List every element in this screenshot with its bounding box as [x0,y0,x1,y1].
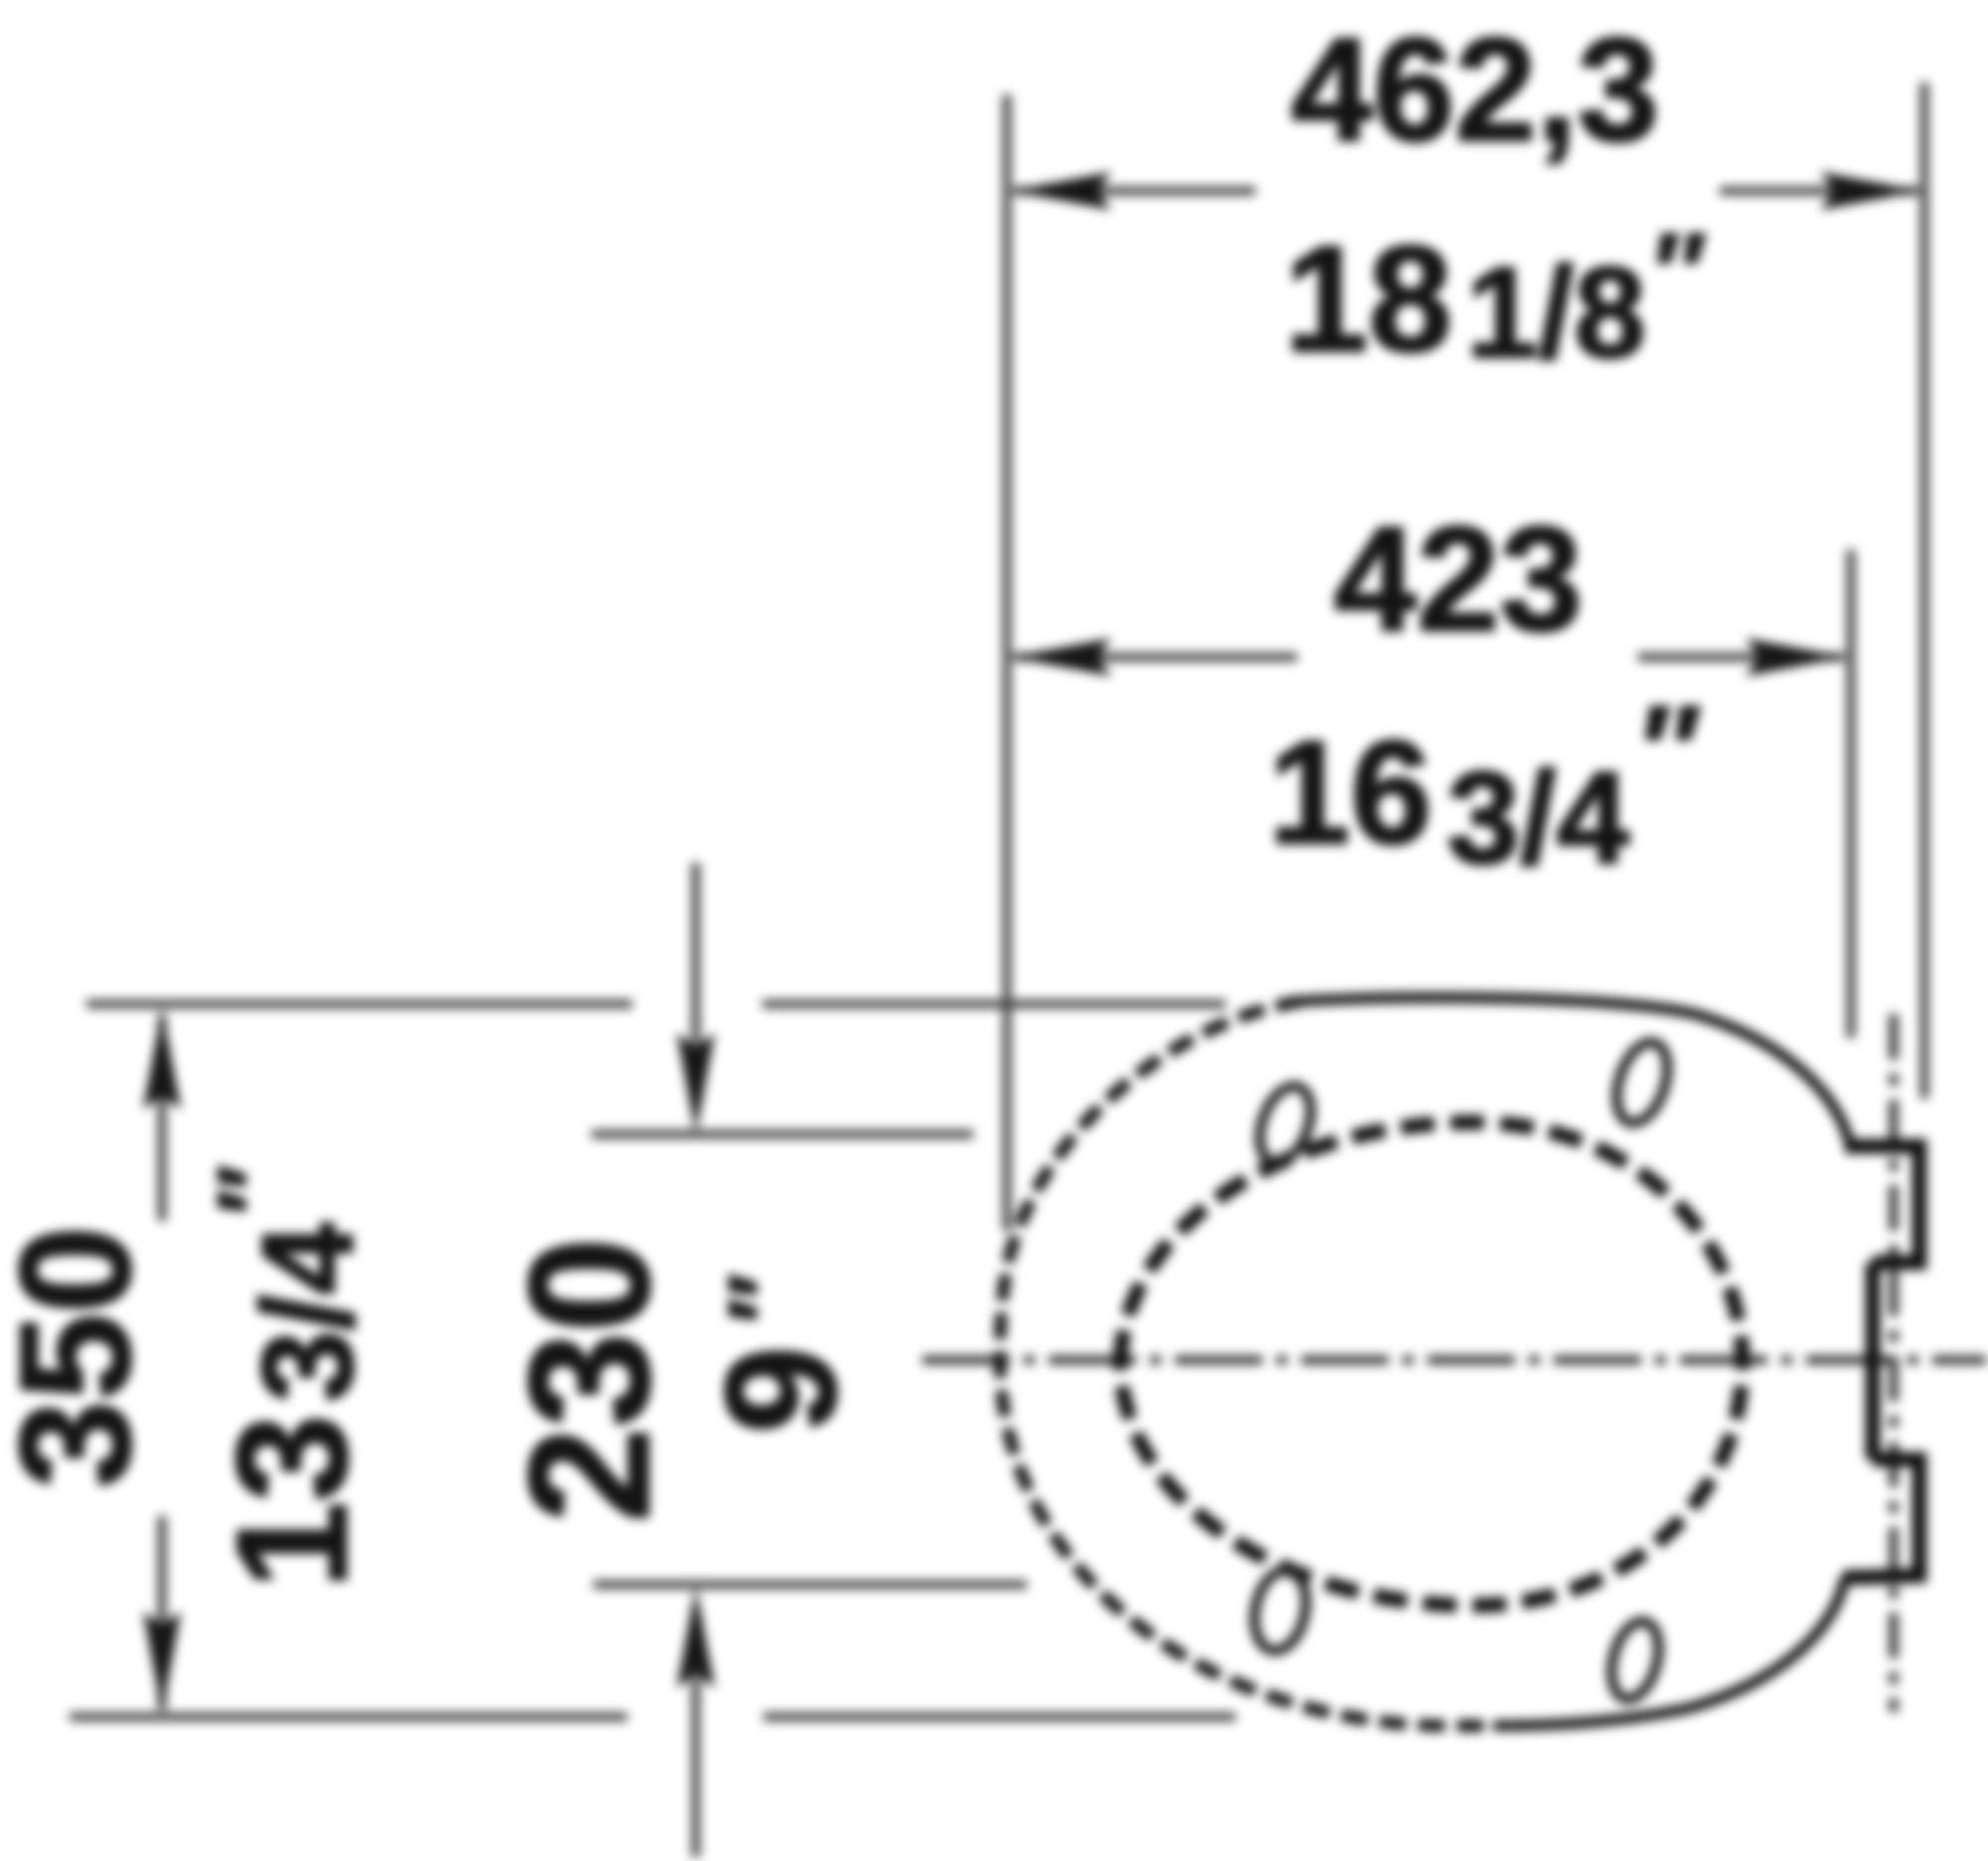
230 bottom extension line [593,1581,1027,1590]
350 bottom extension line (left part) [70,1713,627,1722]
hinge plate middle vertical [1866,1263,1881,1459]
dimension line 423 right segment [1638,653,1844,662]
bumper bottom-right [1603,1616,1666,1705]
extension line right for 462.3 (hinge plate outer edge) [1920,83,1929,1099]
inner ring (seat opening, dashed) [1120,1122,1742,1606]
230 lower arrowhead [677,1587,715,1688]
bumper top-left [1250,1080,1321,1170]
dimension line 462,3 right segment [1720,187,1918,196]
seat outer contour solid part (lid bottom corner) [1493,1578,1845,1726]
svg-text:230: 230 [494,1238,685,1523]
seat outer contour dashed part (front oval) [1000,1001,1493,1726]
350 arrowhead down [143,1611,181,1713]
230 upper arrowhead [677,1033,715,1134]
bumper bottom-left [1247,1566,1313,1656]
350 bottom extension line (right part) [763,1713,1236,1722]
hinge plate steps (lower) [1843,1459,1919,1578]
230 lower arrow shaft (outside, pointing up) [692,1678,701,1857]
arrowhead 462,3 left [1010,172,1111,210]
350 dimension line upper segment [158,1016,167,1221]
hinge plate steps (upper) [1845,1146,1919,1263]
svg-text:462,3: 462,3 [1291,8,1659,172]
hinge axis vertical centerline (dashed) [1890,1014,1899,1712]
arrowhead 423 right [1745,638,1847,676]
svg-text:″: ″ [708,1273,824,1323]
horizontal centerline (dash-dot) [922,1356,1986,1365]
350 arrowhead up [143,1008,181,1109]
350 dimension line lower segment [158,1516,167,1709]
extension line left (front edge of seat) [1003,94,1012,1231]
svg-text:9: 9 [694,1346,869,1434]
350 top extension line (left part) [86,1000,632,1009]
arrowhead 462,3 right [1820,172,1921,210]
350 top extension line (right part) [762,1000,1226,1009]
arrowhead 423 left [1010,638,1111,676]
dimension line 462,3 left segment [1014,187,1255,196]
svg-text:350: 350 [0,1226,163,1488]
svg-text:423: 423 [1334,495,1582,662]
dimension line 423 left segment [1014,653,1297,662]
seat outer contour solid part (lid top edge and hinge side) [1302,997,1850,1144]
extension line right for 423 (lid corner edge) [1847,550,1856,1038]
230 upper arrow shaft (outside, pointing down) [692,863,701,1044]
bumper top-right [1607,1036,1677,1129]
230 top extension line [591,1130,973,1139]
